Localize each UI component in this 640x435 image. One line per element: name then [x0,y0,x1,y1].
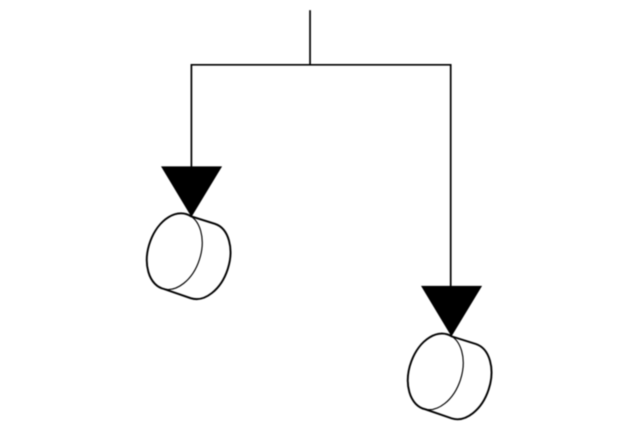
cylinder (left) [138,206,231,299]
wire: top vertical stub [309,10,311,65]
near cap full ellipse (thin) [138,206,212,297]
outer boundary (thick) [147,213,231,299]
cylinder (right) [399,326,492,419]
arrowhead triangle (right) [422,286,481,335]
arrowhead triangle (left) [162,167,221,216]
wire: horizontal bar with left and right drop wires [191,65,450,287]
